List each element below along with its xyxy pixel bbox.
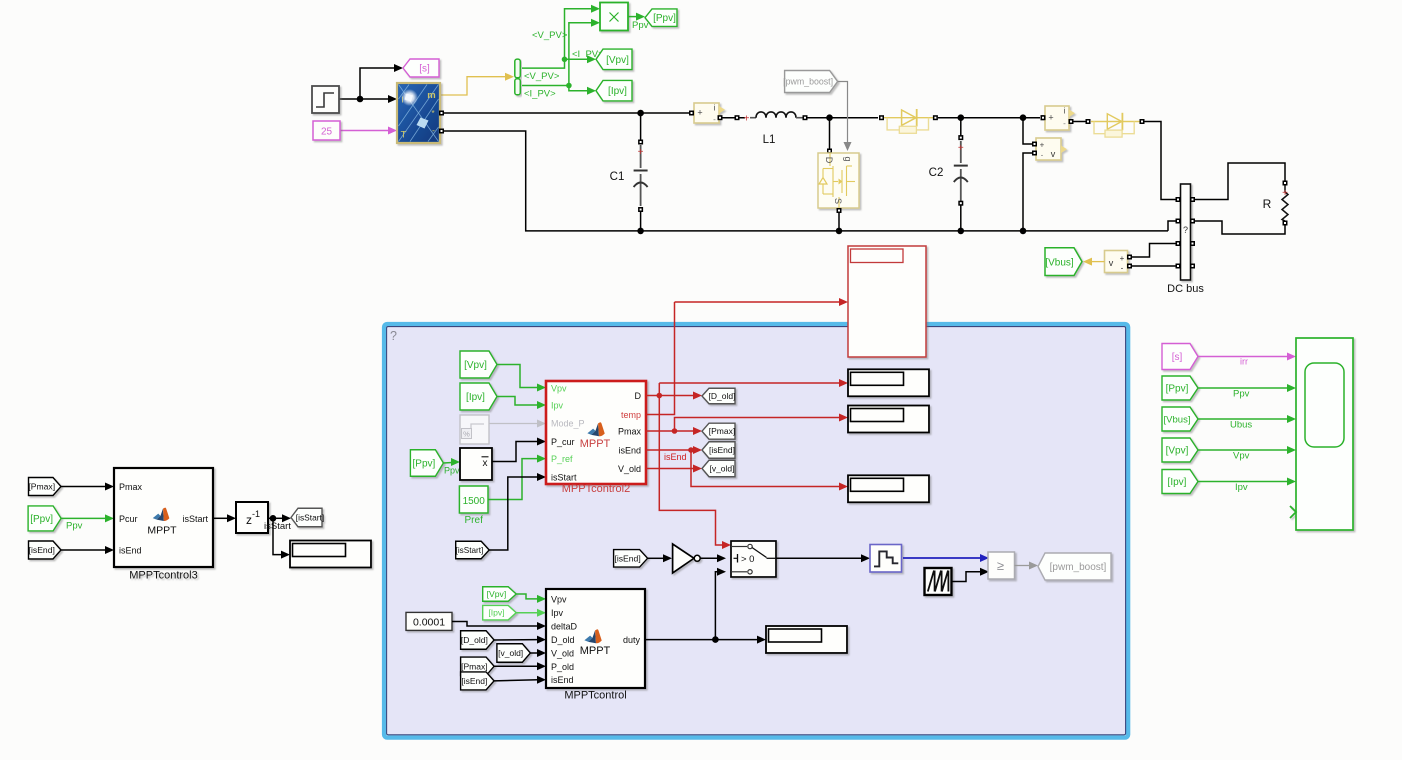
svg-text:g: g: [843, 156, 853, 161]
PV Array block: [397, 83, 440, 143]
wire: Pmax output net (to [Pmax], display B): [646, 414, 848, 436]
svg-text:isStart: isStart: [264, 521, 291, 532]
wire: sawtooth to relational op: [952, 568, 990, 582]
svg-text:[D_old]: [D_old]: [709, 391, 736, 401]
svg-text:x: x: [483, 458, 488, 469]
svg-text:duty: duty: [623, 635, 641, 645]
svg-text:[Vpv]: [Vpv]: [606, 55, 629, 66]
display C (isEnd): [848, 475, 929, 502]
svg-text:Pcur: Pcur: [119, 514, 138, 524]
wire: v2 output to [Vbus] tag (yellow): [1083, 258, 1105, 266]
wire: [Ipv] to Ipv (lower): [517, 609, 547, 617]
wire: NOT to switch control input: [701, 554, 727, 562]
svg-text:V_old: V_old: [551, 649, 574, 659]
wire: bottom rail jog into DC bus input 2: [1168, 221, 1176, 231]
svg-text:+: +: [1282, 188, 1288, 199]
goto tag [isStart]: [291, 508, 324, 527]
svg-text:[Ipv]: [Ipv]: [1168, 477, 1187, 488]
svg-text:Pmax: Pmax: [119, 482, 143, 492]
svg-text:<V_PV>: <V_PV>: [524, 71, 560, 82]
from tag [Ipv] (in box): [460, 383, 497, 410]
svg-text:P_ref: P_ref: [551, 454, 573, 464]
svg-text:S: S: [833, 198, 843, 204]
svg-text:-: -: [713, 115, 716, 124]
svg-text:[isStart]: [isStart]: [456, 546, 484, 555]
svg-text:[Ppv]: [Ppv]: [30, 514, 53, 525]
svg-text:[Pmax]: [Pmax]: [28, 482, 55, 492]
wire: sensor2 output to diode2: [1071, 119, 1091, 124]
current measurement i1: [694, 103, 725, 124]
svg-text:-: -: [1063, 119, 1066, 128]
commented-out block (Mode_P source, grayed): [460, 415, 489, 444]
from tag [isEnd] (left): [29, 541, 62, 559]
wire: v-sensor1 taps: [1020, 118, 1033, 235]
wire: [Ipv] to Ipv input: [498, 397, 547, 410]
switch block: [731, 541, 776, 577]
svg-text:D: D: [824, 157, 834, 164]
svg-text:≥: ≥: [997, 558, 1004, 573]
goto tag [Vpv] (top): [596, 49, 632, 70]
svg-text:Ppv: Ppv: [1233, 389, 1250, 400]
svg-text:m: m: [427, 90, 435, 101]
relational operator >=: [988, 552, 1015, 579]
wire: [v_old] to V_old: [530, 649, 546, 657]
svg-text:[Ipv]: [Ipv]: [466, 392, 485, 403]
svg-text:*: *: [431, 109, 434, 118]
goto tag [Vbus]: [1045, 248, 1082, 276]
svg-text:0.0001: 0.0001: [413, 617, 445, 629]
svg-text:-: -: [432, 126, 435, 136]
wire: grayed line to Mode_P: [489, 420, 546, 428]
wire: [Pmax] to MPPTcontrol3: [61, 483, 114, 491]
svg-text:v: v: [1109, 258, 1114, 268]
wire: product output Ppv to [Ppv]: [628, 13, 645, 21]
step block (irradiance step): [312, 86, 339, 113]
svg-text:DC bus: DC bus: [1167, 283, 1204, 295]
wire: PV m output to Bus Selector (yellow measurement line): [440, 73, 514, 95]
wire: bus selector out1 (V_PV) up to product and to [Vpv]: [522, 5, 600, 68]
svg-text:Vpv: Vpv: [551, 384, 567, 394]
svg-text:[Vbus]: [Vbus]: [1045, 258, 1074, 269]
display A (D): [848, 369, 929, 396]
svg-text:<I_PV>: <I_PV>: [524, 89, 556, 100]
wire: temp output up to scope1: [646, 302, 675, 415]
svg-text:P_old: P_old: [551, 662, 574, 672]
constant 0.0001: [406, 612, 452, 630]
wire: R bottom back to DC bus out2: [1195, 221, 1286, 234]
svg-text:i: i: [714, 104, 716, 113]
svg-text:Pmax: Pmax: [618, 427, 642, 437]
svg-text:[Ipv]: [Ipv]: [608, 86, 627, 97]
goto tag [v_old]: [702, 460, 735, 477]
svg-text:P_cur: P_cur: [551, 437, 575, 447]
wire: [Pmax] to P_old: [494, 662, 546, 670]
wire: isEnd output net (to [isEnd], display C) + label isEnd: [646, 446, 848, 491]
diode D1 (with snubber): [879, 109, 938, 133]
svg-text:[Vpv]: [Vpv]: [487, 589, 507, 599]
logical NOT gate: [673, 544, 701, 573]
bus selector: [515, 59, 521, 95]
svg-text:C1: C1: [610, 171, 625, 183]
wire: 25 constant to PV T input (magenta): [340, 127, 397, 135]
svg-text:-: -: [1041, 151, 1044, 160]
wire: red line into scope1: [675, 298, 849, 306]
svg-text:-: -: [1121, 264, 1124, 273]
wire: current sensor1 output to inductor: [720, 114, 750, 125]
goto tag [pwm_boost] (in box): [1038, 553, 1111, 580]
svg-text:[isEnd]: [isEnd]: [461, 676, 487, 686]
goto tag [Pmax]: [702, 423, 735, 439]
svg-text:+: +: [1120, 254, 1125, 263]
wire: Ipv to scope: [1199, 478, 1297, 494]
wire: C2 branch: [958, 118, 965, 235]
constant 1500 (Pref): [459, 486, 488, 513]
MATLAB Function block MPPTcontrol: [546, 589, 645, 688]
svg-text:[isEnd]: [isEnd]: [29, 545, 55, 555]
from tag [isEnd] (lower): [461, 672, 495, 690]
from tag [Ppv] (in box): [410, 450, 443, 477]
svg-text:[pwm_boost]: [pwm_boost]: [783, 77, 833, 87]
diode D2 (with snubber): [1086, 113, 1145, 137]
MinMax running resettable block (xbar): [460, 448, 492, 480]
from tag [isStart] (in box): [456, 541, 490, 559]
from tag [v_old] (lower): [497, 644, 531, 663]
svg-text:[Vbus]: [Vbus]: [1164, 414, 1191, 425]
from tag [Pmax] (lower): [461, 657, 495, 676]
svg-text:D_old: D_old: [551, 635, 575, 645]
scope2 (green bordered, right): [1290, 338, 1353, 530]
inductor L1: [750, 112, 808, 146]
from tag [Pmax] (left): [28, 478, 61, 496]
from tag [D_old] (lower): [461, 631, 495, 650]
goto tag [D_old]: [702, 388, 735, 404]
svg-text:%: %: [463, 430, 470, 439]
current measurement i2: [1045, 106, 1075, 130]
rate transition / signal spec block (blue): [870, 545, 902, 573]
wire: isStart output to unit delay: [213, 514, 236, 522]
goto tag [s] (irradiance signal): [403, 59, 439, 77]
svg-text:isEnd: isEnd: [618, 446, 641, 456]
svg-text:?: ?: [390, 329, 397, 343]
from tag [pwm_boost] (top): [783, 71, 837, 93]
wire: irr to scope (magenta): [1199, 353, 1297, 367]
subsystem open-area (MPPT control, blue frame): [384, 324, 1128, 737]
svg-text:+: +: [958, 143, 964, 154]
svg-text:> 0: > 0: [741, 554, 754, 565]
svg-text:V_old: V_old: [618, 464, 641, 474]
svg-text:T: T: [401, 130, 407, 141]
wire: 0.0001 to deltaD: [452, 622, 546, 631]
svg-text:isStart: isStart: [551, 473, 577, 483]
svg-text:-1: -1: [252, 509, 260, 519]
wire: 1500 to P_ref (green): [488, 455, 546, 500]
svg-text:[isStart]: [isStart]: [296, 512, 324, 522]
svg-text:+: +: [1048, 113, 1053, 123]
sawtooth generator block: [925, 568, 952, 595]
svg-text:Vpv: Vpv: [551, 594, 567, 604]
from tag [Ipv] (right): [1162, 470, 1198, 494]
from tag [Ppv] (left, green): [28, 506, 61, 531]
svg-text:[isEnd]: [isEnd]: [709, 445, 735, 455]
from tag [Vpv] (in box): [460, 351, 497, 378]
from tag [isEnd] (switch row): [614, 550, 648, 568]
svg-text:[v_old]: [v_old]: [709, 463, 734, 473]
svg-text:[Ppv]: [Ppv]: [653, 13, 676, 24]
svg-text:[Vpv]: [Vpv]: [464, 360, 487, 371]
svg-text:[s]: [s]: [1172, 352, 1183, 363]
svg-text:i: i: [1064, 107, 1066, 116]
svg-text:[pwm_boost]: [pwm_boost]: [1050, 562, 1107, 573]
from tag [Ipv] (lower): [483, 605, 517, 620]
wire: MOSFET source to bottom rail: [836, 211, 843, 234]
svg-text:MPPT: MPPT: [580, 645, 611, 657]
svg-text:MPPTcontrol: MPPTcontrol: [564, 690, 626, 702]
svg-text:Vpv: Vpv: [1233, 451, 1250, 462]
goto tag [Ppv] (top): [645, 9, 677, 27]
wire: PV - output down to bottom rail: [443, 131, 1168, 231]
wire: [Ppv] to MinMax + label Ppv: [444, 458, 460, 476]
wire: diode1 to C2/v-sensor nodes to current sensor2: [938, 114, 1046, 121]
wire: [isStart] to isStart input: [489, 473, 546, 550]
svg-text:25: 25: [321, 127, 333, 138]
wire: PV + output rail to current sensor (node): [443, 110, 691, 117]
svg-text:Ppv: Ppv: [444, 466, 460, 476]
svg-text:Ppv: Ppv: [632, 20, 649, 31]
svg-text:MPPTcontrol2: MPPTcontrol2: [562, 483, 630, 495]
svg-text:Mode_P: Mode_P: [551, 419, 585, 429]
wire: step output to junction to [s] and PV Ir input: [339, 64, 403, 103]
svg-text:Ipv: Ipv: [551, 401, 564, 411]
wire: Ubus to scope: [1199, 415, 1297, 431]
svg-text:C2: C2: [929, 167, 944, 179]
svg-text:Ppv: Ppv: [66, 521, 83, 532]
wire: [isEnd] to isEnd (lower): [494, 676, 546, 684]
wire: relational op to [pwm_boost] (gray): [1015, 562, 1039, 570]
from tag [Vpv] (lower): [483, 587, 517, 602]
voltage measurement v1: [1036, 138, 1067, 160]
MOSFET switch block: [818, 153, 859, 208]
svg-text:[Pmax]: [Pmax]: [709, 426, 735, 436]
wire: inductor to diode1, MOSFET branch node: [807, 114, 878, 153]
wire: DC bus out1 to load R top: [1195, 163, 1286, 200]
svg-text:[Vpv]: [Vpv]: [1166, 446, 1189, 457]
MATLAB Function block MPPTcontrol2 (red): [546, 381, 646, 484]
wire: rate transition to relational op (blue): [903, 554, 989, 562]
constant 25 (temperature): [313, 121, 340, 140]
svg-text:v: v: [1051, 149, 1056, 159]
svg-text:[Ipv]: [Ipv]: [488, 608, 504, 618]
svg-text:[s]: [s]: [419, 64, 430, 75]
wire: z^-1 to [isStart] goto and display: [264, 514, 291, 558]
wire: C1 branch: [637, 113, 644, 234]
wire: switch output to rate transition: [776, 554, 870, 562]
MATLAB Function block MPPTcontrol3: [114, 468, 213, 582]
svg-text:L1: L1: [763, 134, 776, 146]
svg-text:MPPT: MPPT: [147, 525, 177, 537]
voltage measurement v2 (Vbus): [1105, 251, 1128, 273]
svg-text:MPPTcontrol3: MPPTcontrol3: [129, 570, 197, 582]
svg-text:Ipv: Ipv: [551, 608, 564, 618]
svg-text:irr: irr: [1240, 357, 1248, 367]
svg-text:[Ppv]: [Ppv]: [413, 459, 436, 470]
wire: [isEnd] to MPPTcontrol3: [61, 546, 114, 554]
unit delay z^-1: [236, 502, 268, 533]
svg-text:Ipv: Ipv: [1235, 482, 1248, 493]
svg-text:[v_old]: [v_old]: [498, 648, 523, 658]
wire: [Vpv] to Vpv input: [498, 365, 547, 392]
wire: [D_old] to D_old: [494, 636, 546, 644]
resistor R: [1263, 181, 1288, 226]
wire: DC bus taps to voltage sensor v2: [1131, 244, 1176, 267]
from tag [s] (right, magenta): [1162, 344, 1198, 370]
svg-text:?: ?: [1183, 225, 1188, 235]
svg-text:1500: 1500: [463, 496, 486, 507]
from tag [Vpv] (right): [1162, 438, 1198, 462]
wire: [isEnd] to NOT gate: [648, 554, 672, 562]
display (isStart): [290, 541, 371, 568]
svg-text:MPPT: MPPT: [580, 438, 611, 450]
display (duty): [766, 626, 847, 653]
svg-text:<V_PV>: <V_PV>: [532, 30, 568, 41]
goto tag [Ipv] (top): [596, 80, 632, 101]
wire: pwm_boost gray control line down to gate: [838, 82, 852, 152]
capacitor C2: [929, 135, 968, 206]
svg-text:deltaD: deltaD: [551, 622, 578, 632]
svg-text:[D_old]: [D_old]: [461, 635, 488, 645]
wire: Vpv to scope: [1199, 446, 1297, 462]
svg-text:temp: temp: [621, 410, 641, 420]
svg-text:+: +: [638, 147, 644, 158]
svg-text:+: +: [1040, 141, 1045, 150]
svg-text:isStart: isStart: [182, 514, 208, 524]
svg-text:R: R: [1263, 197, 1272, 211]
svg-text:[isEnd]: [isEnd]: [614, 553, 640, 563]
from tag [Ppv] (right): [1162, 376, 1198, 400]
svg-text:isEnd: isEnd: [119, 546, 142, 556]
svg-text:I: I: [401, 95, 403, 105]
svg-text:[Ppv]: [Ppv]: [1166, 384, 1189, 395]
svg-text:[Pmax]: [Pmax]: [461, 661, 487, 671]
wire: V_old output to [v_old]: [646, 465, 702, 473]
product block (Ppv = Vpv * Ipv): [600, 3, 628, 31]
wire: xbar output to P_cur: [492, 438, 546, 462]
DC bus (bus bar block): [1181, 184, 1191, 280]
wire: bus selector out2 (I_PV) up to product and to [Ipv]: [522, 19, 600, 95]
wire: diode2 to DC bus input 1: [1144, 122, 1176, 200]
svg-text:Pref: Pref: [465, 515, 484, 526]
display B (Pmax): [848, 406, 929, 433]
wire: D output net (to [D_old], display A, switch): [646, 379, 848, 549]
wire: Ppv to scope: [1199, 384, 1297, 400]
wire: [Ppv] to MPPTcontrol3 (green) + label Ppv: [61, 514, 114, 531]
svg-text:Ubus: Ubus: [1230, 420, 1252, 431]
wire: duty output to display and switch input 3: [645, 568, 766, 644]
svg-text:isEnd: isEnd: [664, 452, 687, 462]
wire: [Vpv] to Vpv (lower): [517, 594, 547, 603]
goto tag [isEnd]: [702, 442, 735, 459]
svg-text:+: +: [697, 108, 702, 118]
svg-text:+: +: [744, 114, 750, 125]
svg-text:isEnd: isEnd: [551, 675, 574, 685]
capacitor C1: [610, 140, 648, 213]
svg-text:D: D: [635, 391, 642, 401]
scope1 (red bordered): [848, 246, 926, 357]
from tag [Vbus] (right): [1162, 407, 1198, 431]
